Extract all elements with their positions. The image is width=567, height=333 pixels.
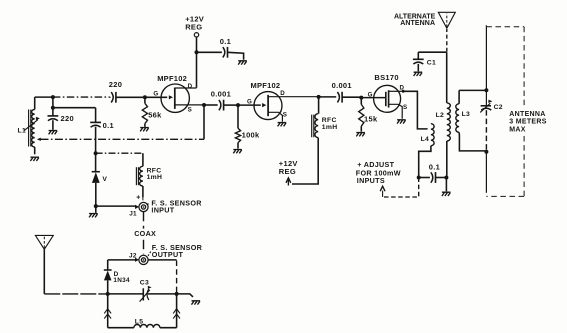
- capacitor 0.001 (Q1-Q2): [204, 100, 238, 111]
- capacitor 0.1 (bypass): [223, 47, 228, 58]
- svg-text:1mH: 1mH: [147, 174, 163, 181]
- diode V (varicap): [92, 153, 100, 206]
- label 0.1: [103, 121, 114, 130]
- label 0.001 (2): [332, 81, 352, 90]
- resistor 56k: [142, 97, 147, 127]
- ground (bypass): [238, 61, 247, 65]
- label ALTERNATE ANTENNA: [394, 13, 436, 27]
- jack J1 F.S. SENSOR INPUT: [135, 197, 148, 211]
- ground (sensor): [89, 206, 98, 217]
- wire (J2 right, dashed): [148, 260, 176, 293]
- node (Q3 drain corner): [402, 90, 405, 93]
- transistor Q2 MPF102: [254, 92, 319, 122]
- node (0.1 bottom / RFC / diode): [94, 151, 98, 155]
- label L3: [462, 111, 471, 118]
- inductor L2: [447, 52, 451, 176]
- label ANTENNA 3 METERS MAX: [506, 108, 552, 135]
- svg-text:C2: C2: [494, 104, 503, 111]
- wire (gate lead): [145, 96, 167, 98]
- antenna (alternate): [438, 12, 455, 52]
- label C2: [494, 104, 503, 111]
- node (0.1 branch): [51, 106, 55, 110]
- node (C2 bottom): [484, 150, 488, 154]
- wire (bypass to ground): [228, 52, 244, 60]
- label +12V REG (2): [279, 159, 298, 176]
- svg-text:COAX: COAX: [134, 229, 156, 238]
- wire (adjust input): [383, 178, 419, 198]
- svg-text:J2: J2: [129, 253, 137, 260]
- wire (branch drop): [52, 96, 54, 116]
- label + ADJUST FOR 100mW INPUTS: [356, 160, 401, 185]
- capacitor C3 (variable): [108, 286, 177, 302]
- label 56k: [148, 110, 162, 119]
- resistor 100k: [235, 105, 240, 149]
- resistor 15k: [359, 98, 364, 132]
- transistor Q3 BS170: [374, 85, 403, 119]
- wire (to ground right): [177, 294, 193, 297]
- label + (J1): [136, 194, 140, 201]
- ground (L2): [442, 192, 451, 196]
- capacitor 0.001 (Q2-Q3): [319, 92, 362, 103]
- label 0.001: [211, 90, 231, 99]
- svg-text:15k: 15k: [364, 114, 378, 123]
- label F.S. SENSOR INPUT: [151, 198, 202, 214]
- diode D 1N34: [104, 270, 112, 294]
- svg-text:REG: REG: [279, 167, 296, 176]
- wire (antenna element): [485, 25, 487, 193]
- svg-text:0.001: 0.001: [332, 81, 352, 90]
- inductor L5: [108, 325, 177, 328]
- svg-text:56k: 56k: [148, 110, 162, 119]
- terminal + ADJUST arrow: [380, 186, 385, 191]
- label C1: [427, 60, 436, 67]
- node (Q2 gate): [236, 103, 240, 107]
- capacitor C1: [413, 52, 424, 71]
- svg-text:0.001: 0.001: [211, 90, 231, 99]
- label 220: [61, 114, 74, 123]
- label L4: [421, 136, 430, 143]
- wire (L3 top to antenna): [459, 89, 486, 91]
- node (+12V junction): [195, 50, 199, 54]
- pin D (Q1): [188, 83, 193, 90]
- capacitor 220 (tank): [48, 116, 59, 130]
- wire (+12V to Q1 drain): [196, 37, 198, 88]
- capacitor 0.1 (tank): [90, 122, 101, 152]
- node (detector left): [106, 292, 110, 296]
- chevrons (right leg): [173, 309, 180, 319]
- node (0.1 right / L2 bottom): [444, 176, 448, 180]
- svg-text:220: 220: [109, 80, 122, 89]
- svg-text:S: S: [403, 104, 407, 111]
- svg-text:100k: 100k: [242, 131, 260, 140]
- svg-text:0.1: 0.1: [103, 121, 114, 130]
- node (diode bottom): [94, 204, 98, 208]
- label 0.1 (output): [429, 162, 440, 171]
- svg-text:220: 220: [61, 114, 74, 123]
- svg-text:L2: L2: [436, 112, 445, 119]
- label L5: [135, 318, 144, 325]
- chevrons (left leg): [104, 309, 111, 319]
- node (detector right): [175, 292, 179, 296]
- capacitor 220 (coupling): [110, 92, 145, 103]
- wire (left leg): [107, 294, 109, 328]
- svg-text:V: V: [102, 176, 107, 183]
- node (Q1 source junction): [202, 103, 206, 107]
- svg-text:C1: C1: [427, 60, 436, 67]
- svg-text:S: S: [283, 111, 287, 118]
- wire (right leg): [176, 294, 178, 328]
- svg-text:ANTENNA: ANTENNA: [400, 20, 435, 27]
- ground (detector): [192, 301, 201, 305]
- label J2: [129, 253, 137, 260]
- svg-text:BS170: BS170: [374, 73, 398, 82]
- svg-text:INPUT: INPUT: [151, 206, 174, 215]
- inductor L1 (slug-tuned, tapped): [18, 97, 40, 154]
- svg-text:D: D: [188, 83, 193, 90]
- svg-text:1mH: 1mH: [322, 124, 338, 131]
- svg-text:D: D: [280, 90, 285, 97]
- inductor RFC 1mH (sensor): [136, 166, 143, 197]
- svg-text:0.1: 0.1: [429, 162, 440, 171]
- label COAX: [133, 229, 165, 238]
- node (Q1 gate): [143, 95, 147, 99]
- node (Q2 drain junction): [317, 95, 321, 99]
- label 15k: [364, 114, 378, 123]
- node (0.1 left): [417, 176, 421, 180]
- svg-text:MAX: MAX: [509, 127, 525, 134]
- ground (Q3 source): [397, 120, 406, 124]
- label D 1N34: [113, 271, 130, 284]
- capacitor 0.1 (output): [419, 172, 447, 183]
- node (C2 top): [484, 88, 488, 92]
- node (Q3 gate): [359, 96, 363, 100]
- pin G (Q1): [153, 91, 158, 98]
- ground (100k): [233, 150, 242, 154]
- svg-text:L5: L5: [135, 318, 144, 325]
- svg-text:C3: C3: [140, 279, 149, 286]
- terminal +12V REG: [194, 33, 198, 37]
- wire (L2 bottom to ground): [445, 178, 447, 192]
- svg-text:0.1: 0.1: [220, 37, 231, 46]
- antenna (field-strength pickup): [35, 235, 53, 294]
- wire (antenna to detector): [44, 293, 107, 295]
- capacitor C2 (variable): [480, 100, 492, 113]
- label J1: [129, 210, 137, 217]
- svg-text:+: +: [136, 194, 140, 201]
- label 0.1 (bypass): [220, 37, 231, 46]
- pin D (Q2): [280, 90, 285, 97]
- jack J2 F.S. SENSOR OUTPUT: [135, 255, 148, 264]
- antenna box (dashed): [486, 27, 524, 197]
- pin D (Q3): [400, 84, 405, 91]
- wire (L1 tap to Q1 source): [37, 105, 204, 141]
- svg-text:MPF102: MPF102: [251, 81, 281, 90]
- wire COAX (dashed): [143, 212, 145, 254]
- svg-text:G: G: [368, 91, 373, 98]
- wire (to 0.1 cap): [53, 108, 96, 122]
- leader (J1 label): [146, 204, 148, 207]
- wire (J2 left): [108, 260, 136, 270]
- leader (J2 label): [148, 252, 151, 257]
- svg-text:G: G: [153, 91, 158, 98]
- svg-text:L4: L4: [421, 136, 430, 143]
- ground (Q2 source): [278, 123, 287, 127]
- label 100k: [242, 131, 260, 140]
- label +12V REG (top): [185, 14, 204, 31]
- label V: [102, 176, 107, 183]
- wire (Q3 drain to L4): [402, 91, 427, 129]
- ground (C1): [414, 72, 423, 76]
- pin S (Q2): [283, 111, 287, 118]
- ground (tank 220): [49, 131, 58, 135]
- pin G (Q3): [368, 91, 373, 98]
- wire (C1 to L2 top): [418, 51, 446, 53]
- inductor RFC 1mH (Q2 drain): [292, 97, 319, 184]
- svg-text:MPF102: MPF102: [157, 74, 187, 83]
- label C3: [140, 279, 149, 286]
- pin S (Q3): [403, 104, 407, 111]
- ground (L1 bottom): [30, 157, 39, 161]
- pin G (Q2): [247, 99, 252, 106]
- svg-text:L3: L3: [462, 111, 471, 118]
- svg-text:ANTENNA: ANTENNA: [509, 111, 545, 118]
- svg-text:L1: L1: [18, 128, 27, 135]
- svg-text:S: S: [188, 107, 192, 114]
- label MPF102 (Q2): [251, 81, 281, 90]
- inductor L3: [456, 90, 486, 150]
- ground (15k): [356, 133, 365, 137]
- label RFC 1mH (2): [322, 117, 338, 131]
- svg-text:INPUTS: INPUTS: [357, 176, 385, 185]
- label 220 (coupling): [109, 80, 122, 89]
- inductor L4: [419, 124, 434, 178]
- ground (56k): [140, 128, 149, 132]
- label L2: [436, 112, 445, 119]
- label F.S. SENSOR OUTPUT: [152, 243, 203, 259]
- label MPF102 (Q1): [157, 74, 187, 83]
- svg-text:J1: J1: [129, 210, 137, 217]
- wire (to RFC1): [96, 153, 143, 166]
- label BS170: [374, 73, 398, 82]
- label RFC 1mH (1): [147, 168, 163, 182]
- svg-text:OUTPUT: OUTPUT: [152, 250, 184, 259]
- wire (Q3 gate lead): [361, 97, 386, 99]
- wire (to J1): [96, 205, 136, 207]
- svg-text:REG: REG: [185, 22, 202, 31]
- pin S (Q1): [188, 107, 192, 114]
- op-amp U none; transistor Q1 MPF102: [161, 84, 204, 112]
- wire (to bypass cap): [197, 51, 222, 53]
- svg-text:G: G: [247, 99, 252, 106]
- svg-text:1N34: 1N34: [113, 277, 130, 284]
- terminal +12V REG (arrow): [286, 178, 291, 186]
- wire (L1 top to coupling cap): [35, 96, 110, 98]
- wire (Q2 gate lead): [238, 104, 261, 106]
- node (top rail / 220 branch): [51, 95, 55, 99]
- svg-text:3 METERS: 3 METERS: [509, 119, 546, 126]
